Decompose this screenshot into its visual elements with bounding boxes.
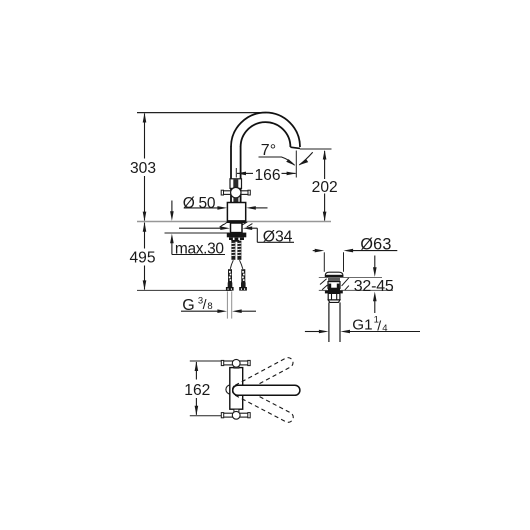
svg-text:303: 303	[130, 160, 156, 177]
dashed spout rotated down	[231, 384, 295, 424]
cross handle bar (side view)	[222, 191, 250, 195]
handle stem (dark)	[233, 179, 238, 187]
dashed spout rotated up	[231, 356, 295, 397]
svg-text:495: 495	[129, 250, 155, 267]
solid spout (plan)	[233, 385, 300, 395]
svg-text:166: 166	[254, 167, 280, 184]
counter hatch right of drain	[342, 278, 349, 290]
counter band top line (drain)	[319, 277, 382, 279]
drain tailpipe	[328, 302, 330, 342]
top handle left cap	[221, 360, 223, 365]
drain locknut band	[325, 291, 343, 294]
hose transition line left	[230, 260, 233, 269]
top handle knob	[232, 359, 240, 367]
riser pipe right edge	[240, 147, 242, 204]
dimension 303 line	[143, 113, 147, 221]
escutcheon top band	[227, 221, 246, 223]
lower reference line (supply end, main view)	[137, 289, 232, 291]
supply pipe below (G 3/8)	[226, 291, 228, 318]
drain body bottom band	[328, 288, 340, 290]
32-45 upper arrow	[373, 256, 377, 277]
outlet extension line down (166 / 7 deg)	[295, 151, 297, 178]
top cross handle bar (plan)	[222, 361, 250, 365]
svg-text:4: 4	[382, 323, 387, 334]
faucet body (plan)	[230, 368, 243, 410]
7 deg underline and left angle arc with arrowhead	[259, 157, 295, 165]
bottom cross handle stem (plan)	[234, 409, 239, 413]
svg-text:Ø 50: Ø 50	[183, 195, 216, 212]
riser pipe left edge	[230, 147, 232, 204]
O50 dimension line with arrows	[184, 206, 268, 210]
166 extension tick below pipe	[235, 168, 237, 178]
svg-text:G1: G1	[352, 316, 372, 333]
162 bottom extension line	[190, 415, 224, 417]
max.30 reference line (counter underside)	[165, 232, 230, 234]
spout outlet cut	[290, 147, 300, 148]
hose ferrule right	[241, 282, 246, 287]
stud thread marks	[232, 243, 242, 255]
bottom handle right cap	[248, 413, 250, 418]
O63 extension lines	[323, 252, 325, 271]
svg-text:/: /	[203, 296, 207, 312]
svg-text:202: 202	[312, 179, 338, 196]
mounting stud left	[231, 241, 235, 260]
top handle right cap	[248, 360, 250, 365]
svg-text:max.30: max.30	[175, 241, 224, 258]
hose hex cap right	[239, 287, 247, 291]
cross handle right end cap	[248, 190, 250, 195]
base neck (O34)	[231, 223, 243, 233]
202 reference line at outlet	[300, 148, 332, 150]
hose hex cap left	[226, 287, 234, 291]
right angle arc with arrowhead	[299, 152, 312, 165]
hose transition line right	[240, 260, 243, 269]
G 3/8 dimension line with arrows	[181, 309, 256, 313]
svg-text:8: 8	[207, 301, 212, 312]
svg-text:32-45: 32-45	[354, 278, 394, 295]
braided hose left	[228, 269, 232, 282]
max.30 label underline	[172, 254, 225, 256]
locknut band 1	[227, 233, 247, 238]
drain nut taper	[328, 300, 340, 303]
cross handle knob circle	[231, 187, 241, 197]
locknut band 2	[229, 237, 244, 240]
cross handle left end cap	[221, 190, 223, 195]
max.30 upper arrow (down to counter)	[170, 201, 174, 221]
drain body in hole: shaded top	[328, 278, 340, 282]
valve body (O50)	[227, 203, 245, 221]
162 top extension line	[190, 360, 224, 362]
G1 1/4 dimension line with arrows	[305, 330, 420, 334]
handle collar housing	[230, 179, 242, 189]
svg-text:162: 162	[184, 382, 210, 399]
hose ferrule left	[228, 282, 233, 287]
counter hatch left of drain	[320, 279, 327, 290]
drain hex nut	[328, 293, 340, 300]
svg-text:Ø63: Ø63	[360, 236, 391, 254]
dimension 495 line	[143, 222, 147, 290]
top reference line (spout apex)	[137, 112, 266, 114]
O63 dimension line with arrows	[313, 249, 398, 253]
dimension 202 line	[323, 150, 327, 221]
dimension 162 line	[195, 361, 199, 415]
bottom cross handle bar (plan)	[222, 413, 250, 417]
valve circle (plan)	[226, 385, 235, 394]
max.30 lower arrow (up to underside line)	[170, 234, 174, 255]
counter hatch left of base	[220, 222, 228, 227]
spout arc inner	[241, 122, 291, 147]
svg-text:7°: 7°	[261, 142, 276, 159]
32-45 lower arrow	[373, 292, 377, 313]
counter reference line (main view)	[137, 221, 331, 223]
O34 dimension arrows and leader	[179, 226, 294, 242]
spout arc outer	[231, 113, 300, 147]
counter hatch right of base	[241, 222, 252, 227]
locknut taper	[231, 240, 239, 242]
counter band bottom line (drain)	[319, 289, 393, 291]
mounting stud right	[237, 241, 241, 260]
svg-text:Ø34: Ø34	[263, 229, 293, 246]
top cross handle stem (plan)	[234, 365, 239, 368]
stem below knob (dark)	[233, 198, 238, 203]
bottom handle knob	[232, 411, 240, 419]
bottom handle left cap	[221, 413, 223, 418]
drain body cage	[328, 282, 340, 289]
drain flange cap	[325, 272, 343, 277]
braided hose right	[241, 269, 245, 282]
dimension 166 line	[236, 172, 296, 176]
